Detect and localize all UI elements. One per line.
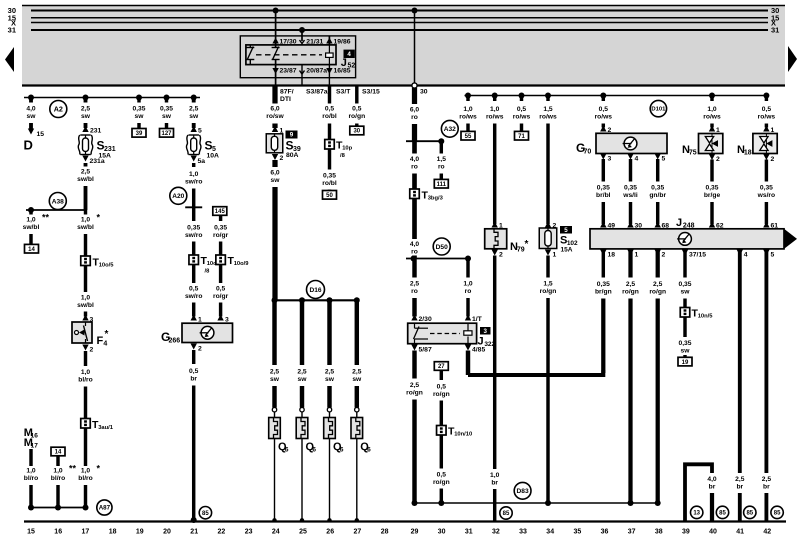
svg-text:1,0: 1,0 <box>53 468 63 475</box>
svg-text:4/85: 4/85 <box>472 347 485 354</box>
node A20 <box>170 187 187 204</box>
svg-text:10n/5: 10n/5 <box>698 314 714 320</box>
fuse S39 <box>272 126 278 132</box>
svg-text:ro/ws: ro/ws <box>459 114 477 121</box>
connector T10o/5 <box>81 256 91 266</box>
J248 pin 5 <box>763 250 769 256</box>
svg-text:2: 2 <box>771 156 775 163</box>
rail junction <box>492 93 498 99</box>
svg-text:0,5: 0,5 <box>325 106 335 113</box>
valve N18 <box>753 134 777 154</box>
svg-text:10p: 10p <box>342 146 352 152</box>
rail junction <box>545 93 551 99</box>
node A38 <box>49 193 66 210</box>
svg-text:0,35: 0,35 <box>624 185 637 192</box>
svg-text:ro: ro <box>438 164 445 171</box>
rail dot <box>299 297 305 303</box>
svg-text:2,5: 2,5 <box>762 476 772 483</box>
wire 20/87a <box>301 65 303 86</box>
wire 4,0 ro lower <box>412 199 417 240</box>
svg-text:A38: A38 <box>52 198 64 205</box>
left direction arrow <box>5 47 14 72</box>
rail dot <box>354 297 360 303</box>
node A2 <box>50 101 67 118</box>
svg-text:sw: sw <box>325 376 335 383</box>
svg-text:sw/ro: sw/ro <box>185 232 202 239</box>
svg-text:4: 4 <box>103 341 107 348</box>
svg-text:70: 70 <box>583 149 591 156</box>
wire 19/86 stub <box>328 36 330 45</box>
terminal 145 <box>213 207 227 216</box>
svg-text:18: 18 <box>109 529 117 536</box>
svg-text:0,35: 0,35 <box>214 225 227 232</box>
wire 1,0 ro/ws col31 <box>466 96 469 102</box>
svg-text:sw/bl: sw/bl <box>23 224 40 231</box>
svg-text:18: 18 <box>744 150 752 157</box>
svg-text:6,0: 6,0 <box>270 106 280 113</box>
wire 2,5 ro/gn 5/87 <box>411 345 417 351</box>
svg-text:2,5: 2,5 <box>325 369 335 376</box>
wire 2,5 sw Q6 1 <box>272 300 276 365</box>
svg-text:1,0: 1,0 <box>189 171 199 178</box>
glow plug Q6 4 <box>355 408 359 412</box>
J52 box 4 <box>344 50 355 58</box>
valve N75 <box>699 134 723 154</box>
svg-text:4,0: 4,0 <box>410 241 420 248</box>
svg-text:1/T: 1/T <box>472 316 483 323</box>
svg-text:127: 127 <box>161 131 172 137</box>
svg-text:32: 32 <box>492 529 500 536</box>
terminal 71 <box>515 131 529 140</box>
terminal 19 <box>678 357 692 366</box>
wire 1,0 bl/ro col15 <box>29 449 32 466</box>
sender G266 <box>191 315 197 321</box>
svg-text:38: 38 <box>655 529 663 536</box>
svg-text:1,5: 1,5 <box>543 281 553 288</box>
J248 pin 1 <box>627 250 633 256</box>
svg-text:sw/ro: sw/ro <box>185 293 202 300</box>
junction bar D50 <box>406 258 468 260</box>
svg-text:37: 37 <box>628 529 636 536</box>
terminal 14 lower <box>51 447 65 456</box>
heater N79 <box>492 222 498 228</box>
svg-text:35: 35 <box>573 529 581 536</box>
svg-text:sw/ro: sw/ro <box>185 179 202 186</box>
svg-text:bl/ro: bl/ro <box>78 475 93 482</box>
svg-text:1,0: 1,0 <box>81 468 91 475</box>
glow plug Q6 3 <box>327 408 331 412</box>
svg-text:J: J <box>676 217 682 229</box>
wire 0,5 ro/gn lower <box>440 435 443 469</box>
wire 2,5 sw Q6 4 <box>355 300 359 365</box>
svg-text:0,5: 0,5 <box>762 106 772 113</box>
svg-text:ro/ws: ro/ws <box>758 114 776 121</box>
svg-text:2,5: 2,5 <box>297 369 307 376</box>
svg-text:231a: 231a <box>90 158 105 165</box>
terminal 14 upper <box>25 244 39 253</box>
svg-text:4,0: 4,0 <box>410 156 420 163</box>
connector T10o/9 <box>216 255 226 265</box>
svg-text:br/ge: br/ge <box>704 192 721 199</box>
ground 85 col42 <box>771 506 783 518</box>
svg-text:20: 20 <box>163 529 171 536</box>
svg-text:6: 6 <box>367 447 371 454</box>
svg-text:248: 248 <box>683 223 695 230</box>
ground 85 col41 <box>744 506 756 518</box>
svg-text:266: 266 <box>168 338 180 345</box>
wire 0,5 ro/ws N18 <box>765 96 768 102</box>
svg-text:6: 6 <box>285 447 289 454</box>
svg-text:3: 3 <box>484 328 488 335</box>
J248 pin 18 <box>600 250 606 256</box>
svg-text:0,5: 0,5 <box>189 286 199 293</box>
svg-text:ro/ws: ro/ws <box>703 114 721 121</box>
wire 0,35 sw/ro <box>192 207 195 221</box>
svg-text:1,0: 1,0 <box>463 281 473 288</box>
svg-text:A20: A20 <box>172 193 184 200</box>
svg-text:*: * <box>105 329 109 340</box>
svg-text:25: 25 <box>299 529 307 536</box>
ground 85 col21 <box>199 507 211 519</box>
svg-text:16/85: 16/85 <box>334 68 351 75</box>
svg-text:15: 15 <box>27 529 35 536</box>
svg-text:231: 231 <box>90 128 102 135</box>
svg-text:22: 22 <box>218 529 226 536</box>
svg-text:71: 71 <box>518 134 525 140</box>
svg-text:br/bl: br/bl <box>596 192 611 199</box>
wire 0,5 ro/bl <box>328 86 331 104</box>
svg-text:br: br <box>763 484 770 491</box>
svg-text:0,35: 0,35 <box>187 225 200 232</box>
wire 4/85 link <box>465 345 471 351</box>
wire 1,0 sw/bl col17 <box>84 210 87 215</box>
svg-text:5: 5 <box>662 156 666 163</box>
svg-text:4: 4 <box>744 252 748 259</box>
svg-text:37/15: 37/15 <box>689 252 706 259</box>
svg-text:17: 17 <box>31 443 39 450</box>
svg-text:2: 2 <box>662 252 666 259</box>
svg-text:5a: 5a <box>198 158 206 165</box>
wire 30 feed col29 <box>412 8 418 14</box>
fuse S102 <box>545 222 551 228</box>
svg-text:ro/ws: ro/ws <box>486 114 504 121</box>
svg-text:85: 85 <box>202 511 209 517</box>
svg-text:ro/gn: ro/gn <box>433 479 450 486</box>
svg-text:0,35: 0,35 <box>651 185 664 192</box>
wire 1,0 sw/ro <box>192 163 195 167</box>
svg-text:ro: ro <box>411 114 418 121</box>
svg-text:ro/bl: ro/bl <box>322 180 337 187</box>
wire 0,35 ro/bl <box>328 149 331 170</box>
svg-text:1,5: 1,5 <box>543 106 553 113</box>
svg-text:2,5: 2,5 <box>81 106 91 113</box>
svg-text:55: 55 <box>465 134 472 140</box>
rail junction <box>763 93 769 99</box>
svg-text:0,5: 0,5 <box>216 286 226 293</box>
svg-text:111: 111 <box>437 182 447 188</box>
node A32 <box>441 120 458 137</box>
wire 0,5 ro/ws G70 <box>602 96 605 102</box>
svg-text:2,5: 2,5 <box>653 281 663 288</box>
rail dot <box>272 297 278 303</box>
svg-text:31: 31 <box>771 26 779 35</box>
connector T10o/8 <box>189 255 199 265</box>
junction bar A32 <box>406 140 441 142</box>
svg-text:85: 85 <box>719 511 726 517</box>
svg-text:sw/bl: sw/bl <box>77 176 94 183</box>
svg-text:1,0: 1,0 <box>26 468 36 475</box>
svg-text:1,0: 1,0 <box>463 106 473 113</box>
node A87 <box>97 500 112 515</box>
svg-text:2,5: 2,5 <box>352 369 362 376</box>
terminal 27 <box>434 362 448 371</box>
svg-text:1,0: 1,0 <box>81 369 91 376</box>
rail junction <box>465 93 471 99</box>
svg-text:/8: /8 <box>340 153 346 159</box>
svg-text:0,35: 0,35 <box>678 340 691 347</box>
svg-text:10n/10: 10n/10 <box>454 432 472 438</box>
svg-text:/8: /8 <box>205 269 211 275</box>
junction A87 bar <box>31 507 86 509</box>
rail junction <box>28 95 34 101</box>
svg-text:ro/ws: ro/ws <box>539 114 557 121</box>
svg-text:19/86: 19/86 <box>334 39 351 46</box>
svg-text:4,0: 4,0 <box>707 476 717 483</box>
svg-text:10o/9: 10o/9 <box>234 261 250 267</box>
svg-text:19: 19 <box>136 529 144 536</box>
svg-text:36: 36 <box>601 529 609 536</box>
glow plug Q6 2 <box>300 408 304 412</box>
wire 2,5 sw col17 <box>84 98 88 103</box>
svg-text:27: 27 <box>354 529 362 536</box>
svg-text:ro/gn: ro/gn <box>406 390 423 397</box>
wire 2,5 sw col21 <box>192 98 196 103</box>
relay plate grey band <box>22 5 785 86</box>
svg-text:ro/sw: ro/sw <box>266 113 284 120</box>
rail junction <box>600 93 606 99</box>
svg-text:sw: sw <box>271 177 281 184</box>
svg-text:85: 85 <box>774 511 781 517</box>
wire 6,0 sw <box>272 160 277 167</box>
svg-text:0,5: 0,5 <box>599 106 609 113</box>
wire 16/85 <box>328 65 330 86</box>
wire 1,0 sw/bl lower <box>84 266 87 293</box>
wire 1,0 ro/ws col32 <box>493 96 496 102</box>
node D50 <box>433 238 450 255</box>
svg-text:ro/gr: ro/gr <box>213 232 229 239</box>
svg-text:2: 2 <box>90 347 94 354</box>
wire 21/31 stub <box>299 27 305 33</box>
svg-text:gn/br: gn/br <box>649 192 666 199</box>
svg-text:75: 75 <box>689 150 697 157</box>
connector T3bg/3 <box>410 189 420 199</box>
left supply rail <box>24 97 200 99</box>
wire 0,5 ro/gr <box>219 265 222 284</box>
ground 13 col39 <box>691 506 703 518</box>
svg-text:0,5: 0,5 <box>189 368 199 375</box>
svg-text:33: 33 <box>519 529 527 536</box>
svg-text:24: 24 <box>272 529 280 536</box>
svg-text:2,5: 2,5 <box>270 369 280 376</box>
svg-text:30: 30 <box>353 129 360 135</box>
glow plug rail <box>275 299 357 301</box>
svg-text:1,0: 1,0 <box>707 106 717 113</box>
wire 0,5 br ground <box>191 344 197 350</box>
svg-text:34: 34 <box>546 529 554 536</box>
rail junction <box>191 95 197 101</box>
node D101 <box>650 100 666 116</box>
connector T10p/8 <box>325 140 335 150</box>
svg-text:17/30: 17/30 <box>280 39 297 46</box>
svg-text:1,5: 1,5 <box>437 156 447 163</box>
svg-text:20/87a: 20/87a <box>306 68 327 75</box>
svg-text:31: 31 <box>465 529 473 536</box>
junction bar A38 <box>26 209 86 211</box>
svg-text:13: 13 <box>693 511 700 517</box>
svg-text:ro/gn: ro/gn <box>649 289 666 296</box>
svg-text:10o/5: 10o/5 <box>99 263 115 269</box>
svg-text:0,35: 0,35 <box>597 185 610 192</box>
wire 2,5 sw Q6 3 <box>327 300 331 365</box>
splice col21 <box>185 206 202 208</box>
svg-text:2: 2 <box>198 346 202 353</box>
svg-text:29: 29 <box>411 529 419 536</box>
fuse S5 <box>191 126 197 132</box>
svg-text:5: 5 <box>564 227 568 234</box>
svg-text:DTI: DTI <box>280 96 291 103</box>
svg-text:40: 40 <box>709 529 717 536</box>
J248 pin 4 <box>737 250 743 256</box>
svg-text:ws/ro: ws/ro <box>757 192 775 199</box>
wire 1,5 ro/ws col34 <box>546 96 549 102</box>
svg-text:0,35: 0,35 <box>132 106 145 113</box>
J248 pin 37/15 <box>682 250 688 256</box>
wire 4,0 ro upper <box>412 141 417 153</box>
svg-text:ro/ws: ro/ws <box>513 114 531 121</box>
svg-text:28: 28 <box>381 529 389 536</box>
svg-text:80A: 80A <box>286 152 299 159</box>
wire 2,5 sw/bl <box>84 163 88 167</box>
bottom ground rail <box>24 520 786 522</box>
svg-text:br: br <box>709 484 716 491</box>
junction line right <box>415 502 658 504</box>
svg-text:br: br <box>736 484 743 491</box>
svg-text:0,35: 0,35 <box>760 185 773 192</box>
wire 1,0 bl/ro col17 <box>82 345 88 351</box>
svg-text:16: 16 <box>54 529 62 536</box>
svg-text:85: 85 <box>503 511 510 517</box>
wire 1,0 br ground <box>493 256 496 470</box>
svg-text:4: 4 <box>635 156 639 163</box>
svg-text:6: 6 <box>340 447 344 454</box>
bus 15 <box>31 17 768 19</box>
svg-text:S3/87a: S3/87a <box>306 89 328 96</box>
svg-text:1: 1 <box>553 252 557 259</box>
ground bridge <box>685 464 712 521</box>
connector T10n/10 <box>437 426 447 436</box>
right supply rail <box>465 95 767 97</box>
N75 pin 2 <box>709 154 715 160</box>
svg-text:2,5: 2,5 <box>735 476 745 483</box>
svg-text:31: 31 <box>8 26 16 35</box>
svg-text:41: 41 <box>736 529 744 536</box>
bus 30 <box>31 10 768 12</box>
svg-text:21: 21 <box>190 529 198 536</box>
svg-text:S3/15: S3/15 <box>362 89 380 96</box>
svg-text:ro: ro <box>411 288 418 295</box>
svg-text:2: 2 <box>716 156 720 163</box>
svg-text:6: 6 <box>312 447 316 454</box>
bus X <box>31 22 768 24</box>
svg-text:bl/ro: bl/ro <box>78 377 93 384</box>
svg-text:ro/gn: ro/gn <box>348 113 365 120</box>
terminal 50 <box>323 191 337 200</box>
wire 0,5 sw/ro <box>192 265 195 284</box>
svg-text:50: 50 <box>326 193 333 199</box>
svg-text:3bg/3: 3bg/3 <box>428 196 444 202</box>
svg-text:5/87: 5/87 <box>419 347 432 354</box>
svg-text:D83: D83 <box>517 488 529 495</box>
svg-text:2/30: 2/30 <box>419 316 432 323</box>
rail junction <box>709 93 715 99</box>
rail junction <box>83 95 89 101</box>
wire 1,5 ro branch <box>440 141 443 153</box>
rail junction <box>164 95 170 101</box>
svg-text:ro/gr: ro/gr <box>213 293 229 300</box>
svg-text:42: 42 <box>763 529 771 536</box>
svg-text:21/31: 21/31 <box>306 39 323 46</box>
svg-text:2: 2 <box>499 252 503 259</box>
relay J322 <box>411 315 417 321</box>
svg-text:sw/bl: sw/bl <box>77 224 94 231</box>
svg-text:sw: sw <box>189 113 199 120</box>
svg-text:85: 85 <box>746 511 753 517</box>
wire 1,0 ro <box>466 259 469 278</box>
svg-text:2,5: 2,5 <box>410 382 420 389</box>
svg-text:*: * <box>525 239 529 250</box>
fuse S231 <box>82 126 88 132</box>
svg-text:5: 5 <box>771 252 775 259</box>
svg-text:3au/1: 3au/1 <box>98 425 114 431</box>
switch F4 <box>82 315 88 321</box>
svg-text:30: 30 <box>420 89 428 96</box>
G70 pin 5 <box>655 154 661 160</box>
svg-text:*: * <box>97 213 101 223</box>
svg-text:D: D <box>24 138 33 153</box>
svg-text:6,0: 6,0 <box>410 107 420 114</box>
relay J52 outer box <box>240 36 355 78</box>
svg-text:D50: D50 <box>436 244 448 251</box>
svg-text:2: 2 <box>280 155 284 162</box>
svg-text:0,35: 0,35 <box>323 173 336 180</box>
wire 0,35 sw low <box>683 317 686 337</box>
svg-text:0,35: 0,35 <box>160 106 173 113</box>
G70 pin 3 <box>600 154 606 160</box>
svg-text:14: 14 <box>28 247 35 253</box>
node D83 <box>514 482 531 499</box>
svg-text:sw: sw <box>681 348 691 355</box>
svg-text:D16: D16 <box>309 287 321 294</box>
wire 1,0 ro/ws N75 <box>710 96 713 102</box>
ground 85 col40 <box>716 506 728 518</box>
wire 6,0 ro <box>412 88 417 104</box>
wire 2,5 ro <box>412 259 416 278</box>
svg-text:145: 145 <box>215 209 226 215</box>
svg-text:ro/gn: ro/gn <box>433 391 450 398</box>
svg-text:ro: ro <box>465 288 472 295</box>
svg-text:0,5: 0,5 <box>352 106 362 113</box>
svg-text:0,35: 0,35 <box>705 185 718 192</box>
